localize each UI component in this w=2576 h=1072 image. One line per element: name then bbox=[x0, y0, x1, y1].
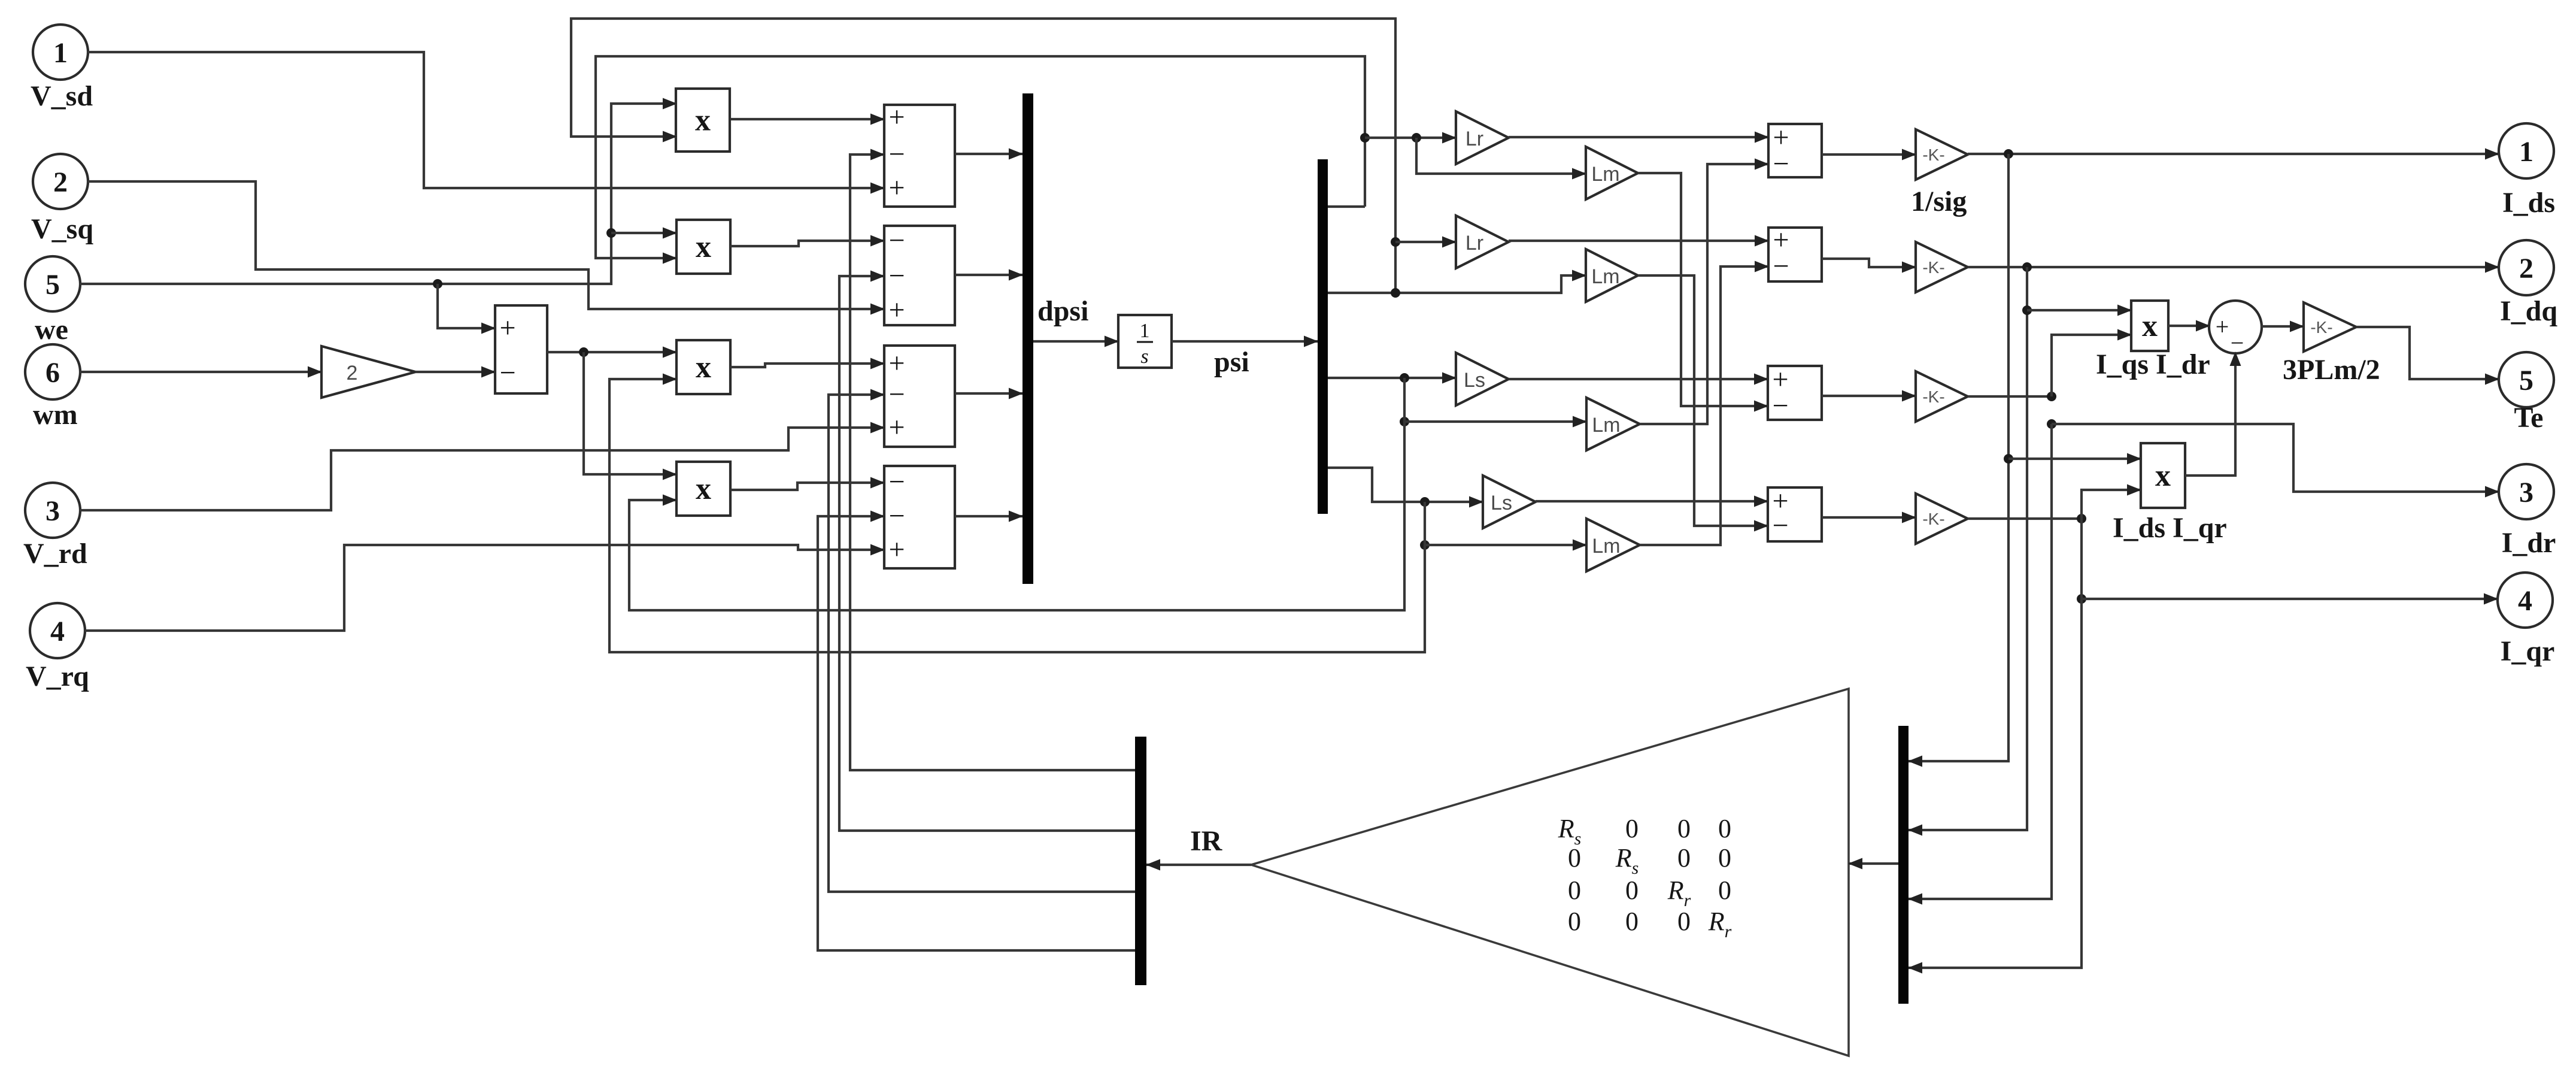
wire psi_qs feedback to x1 bottom bbox=[571, 19, 1395, 293]
svg-text:0: 0 bbox=[1568, 843, 1581, 873]
svg-text:V_rq: V_rq bbox=[26, 661, 89, 692]
output port 1 (I_ds) bbox=[2499, 123, 2554, 178]
svg-text:−: − bbox=[2231, 329, 2244, 356]
multiplier x1 (we*psi_qs) bbox=[676, 89, 730, 152]
wire psi demux out1 stub bbox=[1328, 205, 1365, 208]
gain 3PLm/2 bbox=[2304, 302, 2356, 352]
svg-text:+: + bbox=[888, 101, 905, 133]
wire K1 out to port I_ds bbox=[1968, 153, 2499, 155]
input port 3 (V_rd) bbox=[25, 483, 80, 538]
svg-text:+: + bbox=[888, 294, 905, 326]
wire V_rd to Sum3 + bbox=[80, 428, 884, 510]
junction we branch bbox=[433, 279, 442, 289]
wire psi_dr to Lm3 bbox=[1404, 378, 1586, 422]
wire x4 out to Sum4 - bbox=[730, 483, 884, 490]
svg-text:1: 1 bbox=[53, 37, 68, 69]
svg-text:x: x bbox=[696, 230, 711, 264]
svg-text:x: x bbox=[2142, 309, 2158, 343]
svg-text:I_dq: I_dq bbox=[2500, 295, 2557, 327]
junction psi_qr junction bbox=[1420, 497, 1430, 507]
svg-text:x: x bbox=[2155, 459, 2171, 493]
svg-text:3: 3 bbox=[45, 495, 60, 527]
svg-text:-K-: -K- bbox=[1922, 510, 1944, 528]
svg-text:V_sq: V_sq bbox=[31, 213, 93, 245]
svg-text:0: 0 bbox=[1625, 814, 1639, 843]
sum block RSum4 (I_qr) bbox=[1768, 485, 1822, 541]
svg-text:+: + bbox=[2216, 313, 2229, 340]
svg-text:1: 1 bbox=[2519, 136, 2533, 168]
gain Lm2 bbox=[1586, 249, 1638, 302]
junction I_qr junction K4 bbox=[2077, 514, 2086, 523]
svg-text:0: 0 bbox=[1718, 814, 1731, 843]
wire I_dr riser to xA bottom bbox=[2052, 335, 2131, 396]
demux bar psi bbox=[1318, 159, 1328, 514]
wire psi_dr down to x4 bottom bbox=[629, 422, 1404, 610]
svg-text:0: 0 bbox=[1568, 876, 1581, 905]
wire dpsi mux to integrator bbox=[1033, 340, 1118, 343]
svg-text:−: − bbox=[888, 378, 905, 410]
wire Lm1 out to RSum3 - bbox=[1638, 173, 1768, 406]
wire 3PLm/2 out to port Te bbox=[2356, 327, 2499, 379]
multiplier xA (I_qs x I_dr) bbox=[2131, 301, 2168, 351]
gain G2 (value 2) bbox=[321, 346, 415, 398]
svg-text:0: 0 bbox=[1718, 843, 1731, 873]
junction psi_qs junction at riser bbox=[1391, 288, 1400, 298]
svg-text:s: s bbox=[1140, 346, 1148, 368]
wire psi_qs to Lr2 bbox=[1395, 241, 1456, 243]
junction I_ds branch to xB bbox=[2004, 454, 2013, 464]
gain Ls2 bbox=[1483, 476, 1536, 528]
svg-text:1: 1 bbox=[1140, 320, 1150, 342]
svg-text:−: − bbox=[1772, 510, 1788, 541]
svg-text:Te: Te bbox=[2514, 402, 2544, 434]
wire K2 out to port I_dq bbox=[1968, 266, 2499, 268]
wire IR demux out4 to Sum4 - bbox=[818, 516, 1135, 950]
wire I_dr to port I_dr bbox=[2052, 424, 2499, 492]
wire x3 out to Sum3 + bbox=[730, 364, 884, 367]
svg-text:0: 0 bbox=[1677, 843, 1691, 873]
junction I_ds junction bbox=[2004, 149, 2013, 159]
wire current mux out to IR gain bbox=[1849, 862, 1898, 865]
wire psi demux out3 to Ls1 bbox=[1328, 377, 1456, 379]
wire K4 out to riser bbox=[1968, 517, 2082, 520]
multiplier x2 (we*psi_ds) bbox=[676, 220, 730, 274]
wire psi demux out2 to Lm2 bbox=[1328, 275, 1586, 293]
gain K2 (1/sig) bbox=[1916, 242, 1968, 292]
wire Lr1 out to RSum1 + bbox=[1509, 136, 1768, 138]
gain Lr1 bbox=[1456, 111, 1509, 164]
svg-text:+: + bbox=[499, 312, 515, 344]
svg-text:−: − bbox=[1772, 390, 1788, 422]
mux bar currents (IR input) bbox=[1898, 726, 1909, 1004]
wire Sum2 out to dpsi mux bbox=[955, 274, 1022, 276]
gain Lr2 bbox=[1456, 216, 1509, 268]
svg-text:−: − bbox=[888, 260, 905, 292]
wire RSum4 out to K4 bbox=[1822, 516, 1916, 519]
sum circle (Te subtract) bbox=[2209, 301, 2262, 356]
wire V_rq to Sum4 + bbox=[84, 545, 884, 631]
sum block Sum2 (dpsi_qs) bbox=[884, 225, 955, 326]
svg-text:I_qs I_dr: I_qs I_dr bbox=[2096, 349, 2210, 380]
gain K3 (1/sig) bbox=[1916, 371, 1968, 422]
junction psi_ds branch to Lm1 bbox=[1412, 133, 1421, 143]
wire I_qr down to current mux 4 bbox=[1909, 519, 2082, 968]
svg-text:x: x bbox=[696, 472, 711, 506]
svg-text:I_qr: I_qr bbox=[2501, 635, 2555, 667]
wire we to x2 top bbox=[611, 232, 676, 234]
svg-text:3: 3 bbox=[2519, 477, 2533, 508]
wire wm to gain 2 bbox=[80, 371, 321, 373]
wire IR demux out3 to Sum3 - bbox=[829, 395, 1135, 892]
svg-text:Lr: Lr bbox=[1466, 232, 1483, 255]
gain Lm1 bbox=[1586, 147, 1638, 199]
input port 6 (wm) bbox=[25, 344, 80, 399]
input port 5 (we) bbox=[25, 256, 80, 311]
wire Ls2 out to RSum4 + bbox=[1536, 500, 1768, 502]
svg-text:−: − bbox=[888, 138, 905, 170]
svg-text:dpsi: dpsi bbox=[1037, 295, 1088, 327]
multiplier x3 ((we-wm)*psi_qr) bbox=[676, 340, 730, 394]
wire psi_ds to Lm1 bbox=[1416, 138, 1586, 174]
svg-text:x: x bbox=[695, 104, 711, 138]
svg-text:5: 5 bbox=[2519, 365, 2533, 396]
wire IR demux out1 to Sum1 - bbox=[850, 155, 1135, 770]
svg-text:+: + bbox=[888, 172, 905, 204]
wire Lm4 out to RSum2 - bbox=[1640, 267, 1768, 545]
wire Sum_we_wm out to x3 top bbox=[547, 351, 676, 353]
junction psi_qs branch to Lr2 bbox=[1391, 237, 1400, 247]
svg-text:−: − bbox=[888, 500, 905, 532]
svg-text:wm: wm bbox=[33, 399, 78, 431]
junction we-wm branch bbox=[579, 347, 588, 357]
wire Sum1 out to dpsi mux bbox=[955, 153, 1022, 155]
wire psi_qr down to x3 bottom bbox=[609, 379, 1425, 652]
wire Lr2 out to RSum2 + bbox=[1509, 240, 1768, 242]
junction I_dr branch port3 bbox=[2047, 419, 2056, 429]
svg-text:−: − bbox=[888, 225, 905, 256]
svg-text:V_rd: V_rd bbox=[23, 538, 87, 570]
junction psi_qr branch to Lm4 bbox=[1420, 540, 1430, 550]
wire xB out to sum circle - bbox=[2185, 352, 2235, 476]
sum block Sum1 (dpsi_ds) bbox=[884, 101, 955, 207]
wire psi_ds to Lr1 bbox=[1365, 137, 1456, 139]
svg-text:6: 6 bbox=[45, 357, 60, 389]
wire psi_ds feedback to x2 bottom bbox=[596, 56, 1365, 258]
svg-text:x: x bbox=[696, 350, 711, 384]
mux bar dpsi bbox=[1022, 93, 1033, 584]
junction I_dr junction K3 bbox=[2047, 392, 2056, 401]
wire we to x1 top bbox=[80, 104, 676, 284]
svg-text:psi: psi bbox=[1214, 346, 1249, 378]
svg-text:-K-: -K- bbox=[1922, 387, 1944, 406]
integrator 1/s bbox=[1118, 315, 1172, 368]
wire I_qs down to current mux 2 bbox=[1909, 267, 2027, 830]
svg-text:3PLm/2: 3PLm/2 bbox=[2283, 354, 2380, 386]
sum block Sum_we_wm (we-wm) bbox=[495, 305, 547, 393]
svg-text:V_sd: V_sd bbox=[31, 80, 93, 112]
svg-text:Lm: Lm bbox=[1592, 535, 1620, 558]
wire x1 out to Sum1 + bbox=[730, 118, 884, 120]
junction psi_ds junction at riser bbox=[1360, 133, 1370, 143]
svg-text:0: 0 bbox=[1677, 814, 1691, 843]
gain K4 (1/sig) bbox=[1916, 493, 1968, 544]
input port 4 (V_rq) bbox=[30, 603, 85, 658]
wire sum circle out to 3PLm/2 bbox=[2261, 325, 2304, 328]
svg-text:0: 0 bbox=[1625, 876, 1639, 905]
junction I_qr branch port4 bbox=[2077, 594, 2086, 604]
wire I_dr down to current mux 3 bbox=[1909, 424, 2052, 899]
wire IR gain out to demux bbox=[1146, 864, 1251, 866]
wire Lm2 out to RSum4 - bbox=[1638, 275, 1768, 526]
gain Lm4 bbox=[1586, 519, 1640, 571]
wire gain 2 to Sum_we_wm - bbox=[415, 371, 495, 373]
sum block Sum4 (dpsi_qr) bbox=[884, 466, 955, 568]
wire IR demux out2 to Sum2 - bbox=[839, 276, 1135, 831]
wire we-wm to x4 top bbox=[584, 352, 676, 474]
svg-text:4: 4 bbox=[2518, 585, 2532, 617]
junction I_qs junction bbox=[2022, 262, 2032, 272]
wire I_ds to xB top bbox=[2008, 458, 2141, 460]
input port 2 (V_sq) bbox=[33, 154, 88, 209]
svg-text:0: 0 bbox=[1625, 907, 1639, 936]
wire I_qs to xA top bbox=[2027, 309, 2131, 311]
wire RSum2 out to K2 bbox=[1822, 259, 1916, 267]
svg-text:0: 0 bbox=[1568, 907, 1581, 936]
wire psi_qr to Lm4 bbox=[1425, 502, 1586, 545]
svg-text:-K-: -K- bbox=[1922, 146, 1944, 164]
wire K3 out to riser bbox=[1968, 395, 2052, 398]
output port 3 (I_dr) bbox=[2499, 464, 2554, 519]
wire we to Sum_we_wm + bbox=[438, 284, 495, 328]
wire I_ds down to current mux 1 bbox=[1909, 154, 2008, 761]
svg-text:1/sig: 1/sig bbox=[1911, 186, 1967, 217]
svg-text:I_dr: I_dr bbox=[2502, 527, 2556, 559]
wire I_qr to port I_qr bbox=[2082, 598, 2498, 600]
svg-text:IR: IR bbox=[1190, 825, 1223, 857]
value label resistance matrix entries bbox=[1558, 814, 1732, 941]
svg-text:−: − bbox=[1773, 148, 1789, 180]
junction psi_dr branch to Lm3 bbox=[1400, 417, 1409, 426]
svg-text:I_ds I_qr: I_ds I_qr bbox=[2113, 512, 2227, 544]
wire psi demux out4 to Ls2 bbox=[1328, 468, 1483, 502]
svg-text:0: 0 bbox=[1677, 907, 1691, 936]
gain IR (resistance matrix, points left) bbox=[1251, 689, 1849, 1056]
wire I_qr riser to xB bottom bbox=[2082, 490, 2141, 519]
demux bar IR output bbox=[1135, 737, 1146, 985]
gain K1 (1/sig) bbox=[1916, 129, 1968, 180]
svg-text:0: 0 bbox=[1718, 876, 1731, 905]
svg-text:4: 4 bbox=[50, 616, 65, 647]
svg-text:2: 2 bbox=[347, 362, 358, 384]
multiplier x4 ((we-wm)*psi_dr) bbox=[676, 462, 730, 516]
svg-text:−: − bbox=[1773, 250, 1789, 282]
input port 1 (V_sd) bbox=[33, 25, 88, 80]
output port 2 (I_dq) bbox=[2499, 240, 2554, 295]
svg-text:-K-: -K- bbox=[1922, 258, 1944, 277]
wire Ls1 out to RSum3 + bbox=[1509, 378, 1768, 380]
svg-text:2: 2 bbox=[2519, 253, 2533, 284]
svg-text:2: 2 bbox=[53, 166, 68, 198]
gain Ls1 bbox=[1456, 353, 1509, 405]
svg-text:+: + bbox=[888, 347, 905, 379]
sum block Sum3 (dpsi_dr) bbox=[884, 346, 955, 447]
wire Lm3 out to RSum1 - bbox=[1640, 164, 1768, 424]
wire Sum3 out to dpsi mux bbox=[955, 392, 1022, 395]
svg-text:Ls: Ls bbox=[1491, 492, 1512, 514]
junction I_qs branch to xA bbox=[2022, 305, 2032, 315]
sum block RSum1 (I_ds) bbox=[1768, 122, 1822, 180]
wire RSum1 out to K1 bbox=[1822, 153, 1916, 156]
junction we riser to x2 bbox=[606, 228, 616, 238]
svg-text:Lm: Lm bbox=[1591, 265, 1619, 288]
junction psi_dr junction bbox=[1400, 373, 1409, 383]
wire x2 out to Sum2 - bbox=[730, 241, 884, 246]
svg-text:Lm: Lm bbox=[1591, 163, 1619, 186]
svg-text:we: we bbox=[35, 314, 68, 346]
svg-text:Lr: Lr bbox=[1466, 128, 1483, 150]
multiplier xB (I_ds x I_qr) bbox=[2141, 443, 2185, 508]
wire integrator to psi demux bbox=[1172, 340, 1318, 343]
sum block RSum3 (I_dr) bbox=[1768, 364, 1822, 422]
wire xA out to sum circle bbox=[2168, 325, 2210, 327]
svg-text:−: − bbox=[499, 357, 515, 389]
output port 5 (Te) bbox=[2499, 352, 2554, 407]
wire V_sq to Sum2 + bbox=[87, 181, 884, 309]
svg-text:Ls: Ls bbox=[1464, 369, 1485, 392]
svg-text:+: + bbox=[888, 411, 905, 443]
gain Lm3 bbox=[1586, 398, 1640, 450]
wire RSum3 out to K3 bbox=[1822, 395, 1916, 397]
wire Sum4 out to dpsi mux bbox=[955, 515, 1022, 517]
svg-text:Lm: Lm bbox=[1592, 414, 1620, 437]
sum block RSum2 (I_qs) bbox=[1768, 224, 1822, 282]
svg-text:-K-: -K- bbox=[2310, 318, 2332, 337]
svg-text:−: − bbox=[888, 466, 905, 498]
svg-text:I_ds: I_ds bbox=[2502, 187, 2555, 219]
svg-text:+: + bbox=[888, 534, 905, 565]
output port 4 (I_qr) bbox=[2498, 573, 2553, 628]
wire V_sd to Sum1 + bbox=[87, 52, 884, 188]
svg-text:5: 5 bbox=[45, 269, 60, 301]
